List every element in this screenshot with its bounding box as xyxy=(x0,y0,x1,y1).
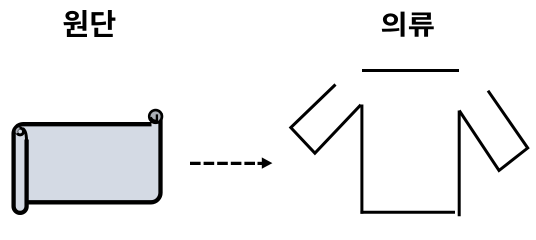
shirt right body side xyxy=(458,111,461,217)
shirt bottom line xyxy=(360,211,455,214)
label 원단 (fabric) xyxy=(63,10,115,37)
fabric roll outline strokes xyxy=(14,113,161,213)
fabric roll top-left curl tail xyxy=(23,129,27,141)
shirt right sleeve xyxy=(459,91,528,171)
shirt left body side xyxy=(360,105,363,214)
shirt left sleeve xyxy=(291,85,361,154)
fabric roll strip fill xyxy=(14,130,27,213)
arrow head xyxy=(262,157,273,168)
fabric roll top-right roll inner gray xyxy=(150,111,160,121)
fabric roll top-left curl ring xyxy=(17,128,24,135)
fabric roll top-left curl gray shading xyxy=(17,128,20,133)
label 의류 (clothing) xyxy=(382,12,434,37)
fabric roll body fill xyxy=(14,117,161,202)
dashed arrow shaft xyxy=(190,162,255,165)
arrow head stem xyxy=(258,162,264,165)
shirt top line xyxy=(362,69,459,72)
fabric roll top-right roll spiral hook xyxy=(151,114,157,121)
fabric roll top-right roll outer circle xyxy=(148,109,163,124)
